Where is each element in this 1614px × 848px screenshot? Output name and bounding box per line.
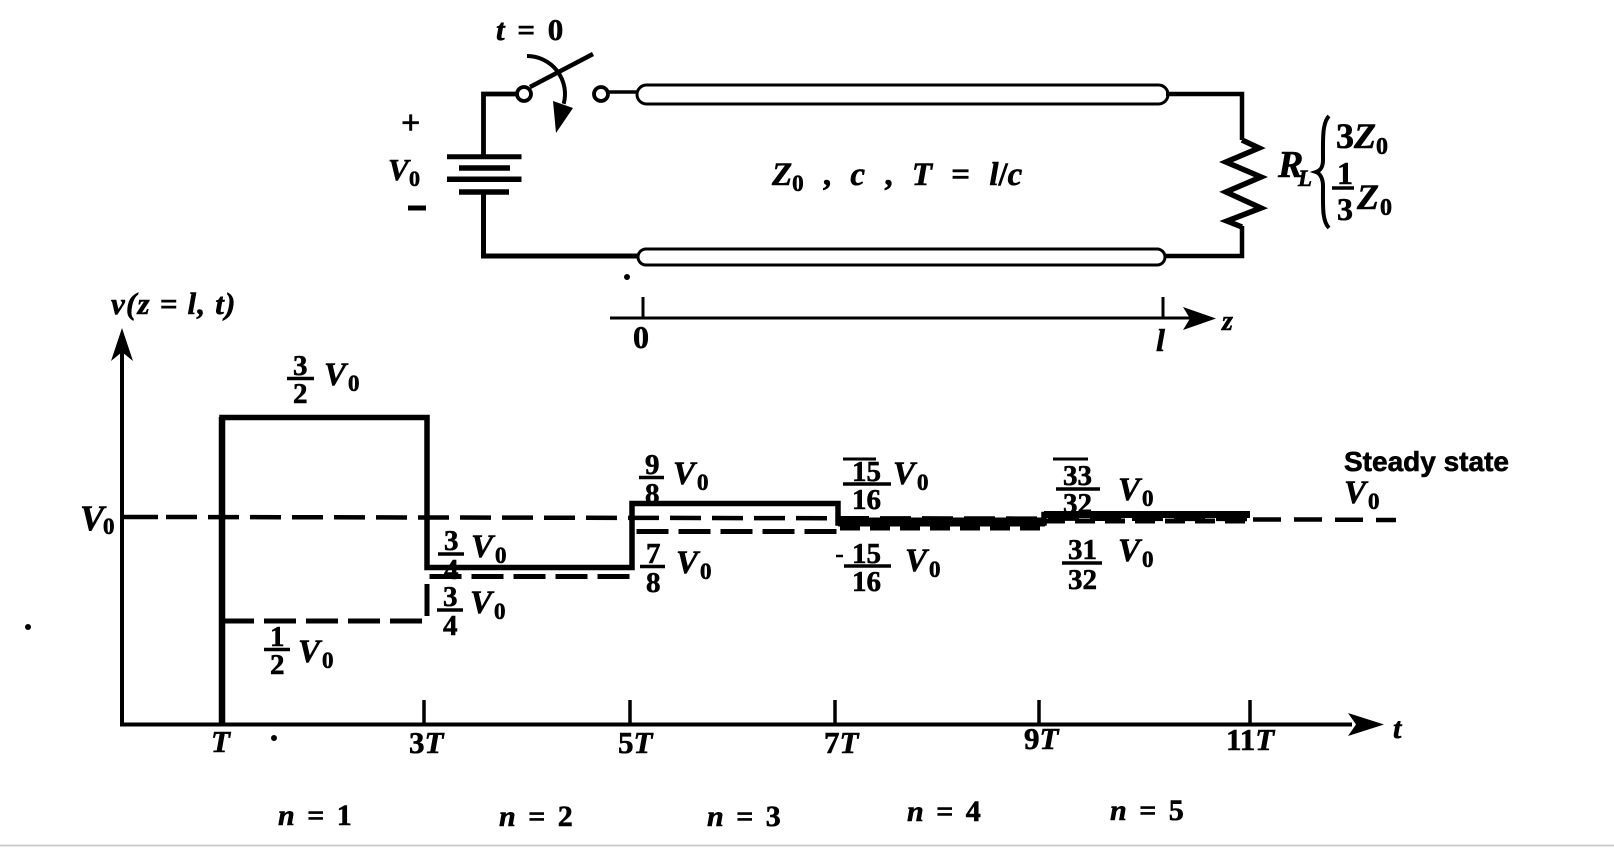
svg-text:l: l bbox=[1156, 322, 1165, 358]
svg-text:0: 0 bbox=[495, 543, 507, 568]
svg-text:0: 0 bbox=[1142, 486, 1154, 511]
svg-text:n = 1: n = 1 bbox=[278, 799, 352, 832]
svg-text:n = 5: n = 5 bbox=[1110, 794, 1184, 827]
svg-text:V: V bbox=[905, 543, 930, 579]
svg-text:0: 0 bbox=[348, 371, 360, 396]
svg-text:0: 0 bbox=[697, 470, 709, 495]
svg-text:V: V bbox=[1118, 472, 1143, 508]
svg-text:3: 3 bbox=[444, 525, 459, 557]
svg-text:0: 0 bbox=[409, 166, 420, 191]
svg-text:V: V bbox=[324, 357, 349, 393]
svg-text:0: 0 bbox=[322, 648, 334, 673]
svg-text:n = 2: n = 2 bbox=[499, 800, 573, 833]
svg-text:16: 16 bbox=[852, 566, 881, 598]
svg-text:32: 32 bbox=[1068, 564, 1097, 596]
svg-text:5T: 5T bbox=[618, 725, 654, 760]
svg-text:11T: 11T bbox=[1226, 722, 1275, 757]
svg-text:2: 2 bbox=[270, 649, 285, 681]
svg-text:0: 0 bbox=[103, 514, 115, 539]
svg-text:Z0 , c , T = l/c: Z0 , c , T = l/c bbox=[771, 157, 1023, 196]
svg-text:Steady state: Steady state bbox=[1344, 446, 1509, 477]
svg-text:0: 0 bbox=[1380, 195, 1392, 221]
svg-text:V: V bbox=[1344, 475, 1369, 511]
svg-text:T: T bbox=[211, 724, 231, 759]
svg-text:0: 0 bbox=[1142, 547, 1154, 572]
svg-text:V: V bbox=[893, 456, 918, 492]
svg-text:3: 3 bbox=[1337, 191, 1353, 227]
svg-text:0: 0 bbox=[1368, 489, 1380, 514]
svg-text:2: 2 bbox=[293, 378, 308, 410]
svg-text:V: V bbox=[471, 529, 496, 565]
svg-text:V: V bbox=[298, 634, 323, 670]
svg-text:31: 31 bbox=[1068, 534, 1097, 566]
svg-text:n = 4: n = 4 bbox=[907, 795, 981, 828]
svg-text:8: 8 bbox=[646, 567, 661, 599]
svg-text:8: 8 bbox=[645, 478, 660, 510]
svg-text:V: V bbox=[1118, 533, 1143, 569]
svg-text:V: V bbox=[470, 585, 495, 621]
svg-text:t = 0: t = 0 bbox=[496, 12, 563, 47]
svg-text:V: V bbox=[388, 152, 411, 187]
svg-text:0: 0 bbox=[917, 470, 929, 495]
svg-text:7T: 7T bbox=[824, 725, 860, 760]
svg-text:L: L bbox=[1297, 166, 1312, 191]
svg-text:V: V bbox=[673, 456, 698, 492]
svg-text:4: 4 bbox=[443, 610, 458, 642]
svg-text:32: 32 bbox=[1063, 488, 1092, 520]
svg-text:V: V bbox=[676, 545, 701, 581]
svg-text:9T: 9T bbox=[1024, 721, 1060, 756]
svg-text:16: 16 bbox=[852, 484, 881, 516]
svg-text:3: 3 bbox=[443, 581, 458, 613]
svg-text:1: 1 bbox=[1337, 155, 1353, 191]
svg-text:0: 0 bbox=[633, 319, 649, 355]
svg-text:z: z bbox=[1221, 306, 1233, 337]
svg-text:+: + bbox=[401, 105, 420, 142]
svg-text:0: 0 bbox=[494, 599, 506, 624]
svg-text:Z: Z bbox=[1356, 177, 1379, 217]
svg-text:0: 0 bbox=[929, 557, 941, 582]
svg-text:v(z = l, t): v(z = l, t) bbox=[111, 286, 237, 321]
svg-text:3T: 3T bbox=[409, 725, 445, 760]
svg-text:n = 3: n = 3 bbox=[707, 800, 781, 833]
svg-text:0: 0 bbox=[700, 559, 712, 584]
